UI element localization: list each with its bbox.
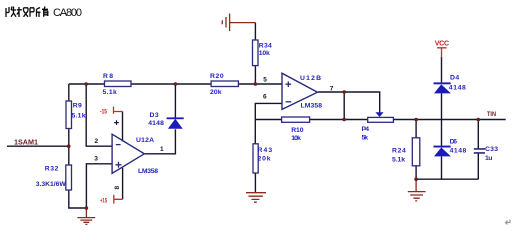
- svg-text:CA800: CA800: [53, 7, 82, 19]
- svg-text:D4: D4: [450, 75, 459, 82]
- svg-text:U12A: U12A: [136, 137, 154, 144]
- svg-text:R34: R34: [259, 43, 272, 50]
- svg-text:U12B: U12B: [300, 75, 321, 82]
- svg-text:7: 7: [330, 86, 334, 93]
- svg-text:D3: D3: [150, 112, 159, 119]
- svg-text:5: 5: [263, 77, 267, 84]
- svg-text:R9: R9: [73, 103, 82, 110]
- svg-text:-15: -15: [100, 108, 107, 115]
- svg-text:10k: 10k: [259, 50, 270, 57]
- svg-text:R43: R43: [258, 147, 273, 154]
- svg-text:P4: P4: [362, 126, 370, 133]
- svg-text:4148: 4148: [449, 85, 466, 92]
- svg-text:R10: R10: [291, 127, 304, 134]
- svg-text:8: 8: [114, 186, 121, 190]
- svg-text:TIN: TIN: [487, 111, 496, 118]
- svg-text:3.3K1/6W: 3.3K1/6W: [36, 181, 67, 188]
- svg-text:5.1k: 5.1k: [103, 89, 118, 96]
- svg-text:4148: 4148: [450, 148, 467, 155]
- svg-text:5k: 5k: [362, 135, 369, 142]
- svg-text:20k: 20k: [258, 156, 271, 163]
- svg-text:+15: +15: [100, 198, 107, 205]
- svg-text:C33: C33: [485, 146, 498, 153]
- svg-text:5.1k: 5.1k: [392, 157, 405, 164]
- svg-text:5.1k: 5.1k: [72, 113, 86, 120]
- svg-text:6: 6: [263, 94, 267, 101]
- svg-text:R20: R20: [210, 73, 224, 80]
- svg-text:LM358: LM358: [138, 168, 158, 175]
- svg-text:D6: D6: [450, 139, 458, 146]
- svg-text:R32: R32: [45, 166, 59, 173]
- svg-text:20k: 20k: [210, 89, 222, 96]
- svg-text:1SAM1: 1SAM1: [14, 138, 38, 147]
- svg-text:1: 1: [160, 146, 164, 153]
- svg-text:10k: 10k: [291, 135, 301, 142]
- svg-text:2: 2: [95, 138, 99, 145]
- svg-text:R24: R24: [392, 148, 406, 155]
- svg-text:VCC: VCC: [435, 41, 449, 48]
- svg-text:4148: 4148: [148, 120, 164, 127]
- svg-text:LM358: LM358: [301, 103, 323, 110]
- svg-text:1u: 1u: [485, 155, 492, 162]
- svg-text:3: 3: [94, 156, 98, 163]
